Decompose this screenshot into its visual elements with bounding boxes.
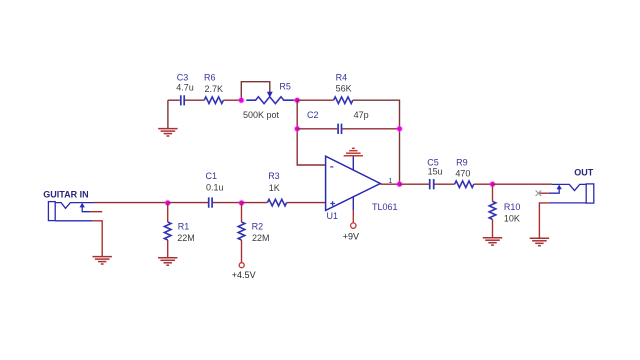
wire (tip to rail) bbox=[94, 202, 168, 204]
wire bbox=[213, 202, 242, 204]
svg-text:56K: 56K bbox=[336, 83, 352, 93]
wire bbox=[241, 240, 243, 263]
capacitor C2 bbox=[307, 110, 369, 134]
svg-text:C2: C2 bbox=[307, 110, 319, 120]
svg-text:R5: R5 bbox=[279, 81, 291, 91]
svg-text:22M: 22M bbox=[252, 233, 270, 243]
node (R10 top) bbox=[489, 181, 496, 188]
wire bbox=[294, 99, 298, 101]
resistor R6 bbox=[204, 73, 223, 104]
svg-text:R4: R4 bbox=[336, 73, 348, 83]
potentiometer R5 bbox=[243, 81, 294, 120]
ground (above op-amp, inverted) bbox=[344, 148, 363, 155]
node (C2 right on vertical) bbox=[396, 125, 403, 132]
wire (pot wiper loop) bbox=[241, 82, 269, 101]
resistor R4 bbox=[334, 73, 353, 104]
wire (R4 right to output node, corner) bbox=[353, 100, 400, 184]
svg-text:470: 470 bbox=[455, 169, 470, 179]
op-amp U1 bbox=[326, 156, 398, 223]
svg-text:15u: 15u bbox=[428, 166, 443, 176]
svg-text:+9V: +9V bbox=[343, 231, 359, 241]
svg-text:TL061: TL061 bbox=[372, 202, 398, 212]
ground (input jack) bbox=[93, 257, 112, 264]
wire bbox=[434, 183, 454, 185]
wire bbox=[242, 202, 268, 204]
wire bbox=[167, 240, 169, 257]
svg-text:1K: 1K bbox=[269, 183, 280, 193]
wire (ring stub) bbox=[538, 192, 548, 194]
connector J1 GUITAR IN bbox=[43, 189, 94, 221]
node (pot left junction) bbox=[238, 97, 245, 104]
node (R1 top) bbox=[164, 200, 171, 207]
connector J2 OUT bbox=[549, 167, 594, 203]
resistor R9 bbox=[455, 157, 474, 187]
wire bbox=[223, 99, 241, 101]
resistor R1 bbox=[164, 203, 194, 243]
power +9V bbox=[343, 223, 359, 241]
wire bbox=[492, 219, 494, 237]
svg-text:4.7u: 4.7u bbox=[176, 82, 194, 92]
resistor R10 bbox=[489, 184, 520, 223]
ground (R10) bbox=[483, 238, 502, 245]
svg-text:2.7K: 2.7K bbox=[205, 84, 224, 94]
svg-text:22M: 22M bbox=[177, 233, 195, 243]
svg-text:R2: R2 bbox=[252, 221, 264, 231]
node (R2 top) bbox=[238, 200, 245, 207]
wire bbox=[185, 99, 204, 101]
capacitor C3 bbox=[176, 73, 194, 106]
svg-text:U1: U1 bbox=[327, 211, 339, 221]
svg-text:R1: R1 bbox=[178, 221, 190, 231]
wire (to + input) bbox=[287, 202, 326, 204]
ground (left of C3) bbox=[158, 100, 177, 136]
node (output) bbox=[396, 181, 403, 188]
svg-text:+4.5V: +4.5V bbox=[232, 270, 256, 280]
wire (feedback vertical to inverting input) bbox=[297, 100, 325, 165]
wire bbox=[342, 128, 399, 130]
svg-text:0.1u: 0.1u bbox=[206, 183, 224, 193]
svg-text:R6: R6 bbox=[204, 73, 216, 83]
svg-text:47p: 47p bbox=[354, 110, 369, 120]
resistor R3 bbox=[267, 171, 286, 206]
svg-text:C1: C1 bbox=[206, 171, 218, 181]
wire (sleeve to ground) bbox=[93, 221, 102, 256]
wire (to OUT jack) bbox=[493, 183, 553, 185]
power +4.5V bbox=[232, 263, 256, 280]
node (R5/R4 junction) bbox=[294, 97, 301, 104]
wire (ring stub) bbox=[91, 211, 103, 213]
ground (output jack) bbox=[530, 238, 549, 245]
capacitor C1 bbox=[206, 171, 224, 208]
wire (sleeve to ground) bbox=[539, 203, 548, 238]
resistor R2 bbox=[238, 203, 269, 243]
node (C2 left branch) bbox=[294, 125, 301, 132]
wire bbox=[168, 202, 208, 204]
svg-text:R3: R3 bbox=[268, 171, 280, 181]
wire (op-amp output) bbox=[380, 183, 399, 185]
svg-text:R10: R10 bbox=[504, 202, 521, 212]
svg-text:GUITAR IN: GUITAR IN bbox=[43, 189, 88, 199]
svg-text:10K: 10K bbox=[504, 213, 520, 223]
ground (R1) bbox=[158, 258, 177, 265]
svg-text:R9: R9 bbox=[456, 157, 468, 167]
svg-text:OUT: OUT bbox=[574, 167, 594, 177]
wire bbox=[400, 183, 430, 185]
no-connect X bbox=[536, 190, 542, 196]
capacitor C5 bbox=[427, 157, 442, 189]
svg-text:C3: C3 bbox=[177, 73, 189, 83]
wire bbox=[297, 128, 337, 130]
wire bbox=[297, 99, 333, 101]
wire bbox=[168, 99, 180, 101]
svg-text:500K pot: 500K pot bbox=[243, 110, 280, 120]
wire bbox=[474, 183, 493, 185]
